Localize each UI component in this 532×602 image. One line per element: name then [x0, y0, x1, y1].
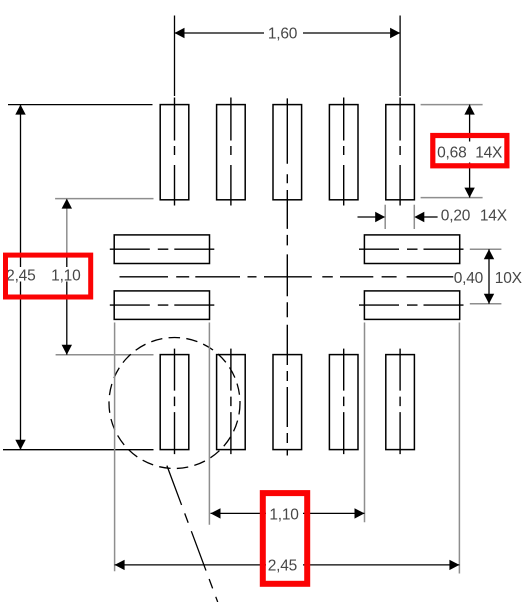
dim 2,45 bottom dimension line [115, 564, 460, 566]
dim 2,45 left arrow up [15, 105, 25, 115]
dim 1,10 left arrow down [62, 345, 72, 355]
centerline of pad P7 [359, 304, 465, 306]
dim 2,45 bottom arrow right [449, 560, 459, 570]
label 1,60 halo [264, 26, 303, 41]
dim 1,60 arrow right [390, 28, 400, 38]
dim 2,45 left dimension line [20, 105, 22, 450]
dim 0,20 extension line right [413, 205, 415, 229]
red highlight box (1,10 / 2,45 bottom) [263, 493, 307, 584]
red highlight box (0,68 14X) [433, 136, 507, 166]
svg-text:0,40: 0,40 [454, 270, 484, 287]
dim 0,68 arrow up [464, 105, 474, 115]
centerline of pad P9 [343, 349, 345, 455]
dim 0,68 extension line top [421, 104, 483, 106]
vertical centerline (through pad P3/P10) [286, 98, 288, 455]
dim 2,45 bottom extension line right [458, 323, 460, 574]
label 0,68 14X halo [435, 142, 505, 163]
dim 0,68 arrow down [464, 188, 474, 198]
dim 0,40 dimension line [488, 249, 490, 304]
dim 1,60 extension line left [174, 16, 176, 97]
label 1,10 bottom halo [266, 506, 303, 523]
svg-text:1,10: 1,10 [51, 267, 81, 284]
dim 0,40 arrow up [484, 249, 494, 259]
dim 2,45 left arrow down [15, 440, 25, 450]
pad P7 (right lower) [364, 291, 459, 320]
svg-text:14X: 14X [480, 208, 508, 225]
dim 0,40 extension line top [470, 248, 502, 250]
dim 1,60 dimension line [175, 32, 401, 34]
centerline of pad P11 [230, 349, 232, 455]
pad P11 (bottom row) [217, 355, 246, 450]
dim 0,20 tail left [358, 216, 377, 218]
dim 0,20 arrow left [375, 212, 385, 222]
dim 1,10 bottom extension line right [364, 323, 366, 523]
dim 1,10 left arrow up [62, 199, 72, 209]
label 1,10 left halo [50, 267, 84, 282]
dim 1,10 left dimension line upper (gray) [66, 199, 68, 253]
detail leader line [167, 466, 218, 602]
dim 1,60 extension line right [399, 16, 401, 97]
dim 1,10 left extension line bottom [56, 354, 154, 356]
dim 0,20 arrow right [414, 212, 424, 222]
svg-text:2,45: 2,45 [268, 557, 297, 574]
centerline of pad P5 [399, 98, 401, 206]
pad P12 (bottom row) [160, 355, 189, 450]
dim 1,10 left dimension line [66, 253, 68, 355]
pad P8 (bottom row) [386, 355, 415, 450]
pad P6 (right upper) [364, 235, 459, 264]
pad P5 (top row) [386, 105, 415, 200]
pad P1 (top row) [160, 105, 189, 200]
dim 0,20 extension line left [384, 205, 386, 229]
dim 0,40 extension line bottom [470, 303, 502, 305]
dim 1,10 bottom arrow left [211, 508, 221, 518]
svg-text:1,10: 1,10 [269, 507, 299, 524]
pad P3 (top row) [273, 105, 302, 200]
dim 2,45 bottom arrow left [115, 560, 125, 570]
svg-text:0,68: 0,68 [437, 145, 466, 162]
dim 1,10 bottom arrow right [355, 508, 365, 518]
dim 0,20 tail right [423, 216, 437, 218]
centerline of pad P6 [359, 248, 465, 250]
dim 2,45 bottom extension line left [114, 323, 116, 572]
dim 2,45 left extension line top [8, 104, 153, 106]
centerline of pad P1 [174, 98, 176, 206]
pad P4 (top row) [329, 105, 358, 200]
svg-text:2,45: 2,45 [6, 267, 35, 284]
dim 1,60 arrow left [175, 28, 185, 38]
dim 0,40 arrow down [484, 294, 494, 304]
centerline of pad P14 [110, 248, 215, 250]
label 2,45 bottom halo [266, 557, 303, 574]
dim 0,68 dimension line [469, 105, 471, 198]
svg-text:10X: 10X [495, 270, 523, 287]
centerline of pad P2 [230, 98, 232, 206]
svg-text:14X: 14X [475, 145, 503, 162]
dim 2,45 left extension line bottom [3, 449, 154, 451]
centerline of pad P4 [343, 98, 345, 206]
pad P10 (bottom row) [273, 355, 302, 450]
centerline of pad P12 [174, 349, 176, 455]
dim 1,10 left extension line top [55, 198, 153, 200]
red highlight box (2,45 / 1,10 left) [6, 255, 91, 297]
svg-text:1,60: 1,60 [268, 26, 298, 43]
horizontal centerline [120, 276, 454, 278]
dim 1,10 bottom dimension line [211, 512, 365, 514]
centerline of pad P8 [399, 349, 401, 455]
label 2,45 left halo [4, 267, 40, 282]
pad P9 (bottom row) [329, 355, 358, 450]
pad P13 (left lower) [114, 291, 209, 320]
centerline of pad P13 [110, 304, 215, 306]
pad P2 (top row) [217, 105, 246, 200]
dim 0,68 extension line bottom [421, 197, 483, 199]
pad P14 (left upper) [114, 235, 209, 264]
svg-text:0,20: 0,20 [441, 208, 471, 225]
dim 1,10 bottom extension line left [208, 323, 210, 525]
detail circle [109, 338, 240, 469]
